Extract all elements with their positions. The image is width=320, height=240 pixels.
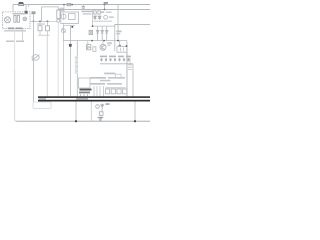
wire cap bottoms y35.2	[38, 34, 50, 36]
small rect row above bus	[106, 89, 110, 94]
fuse F2 on L rail	[67, 3, 71, 5]
power module box U1	[77, 41, 127, 97]
IC2 label text	[80, 89, 92, 91]
relay indicator circle	[57, 19, 60, 22]
terminal block	[33, 102, 51, 108]
capacitor C4	[98, 11, 101, 14]
varistor bottom circle	[96, 105, 100, 109]
label rows right of IC2	[90, 77, 106, 79]
fuse F1	[19, 3, 24, 6]
node dot y39.7 x104	[103, 40, 105, 42]
wire N rail	[58, 9, 150, 11]
label right of caps	[106, 12, 112, 13]
node dot y39.7 x118	[117, 40, 119, 42]
caps label text	[37, 23, 45, 24]
switch symbol under relay	[62, 25, 64, 40]
wire earth bottom rail	[16, 120, 150, 122]
capacitor C2	[47, 21, 49, 25]
inlet plug circle with X	[5, 17, 11, 23]
IC2 pin stubs	[81, 94, 88, 96]
capacitor C1	[39, 21, 41, 25]
wire x118 from L down	[117, 5, 119, 41]
inlet labels	[13, 13, 27, 14]
diode D2	[98, 16, 101, 20]
small rect R5	[93, 47, 96, 52]
wire dc bus y39.7	[63, 40, 127, 42]
small parts row y58.5	[100, 58, 129, 61]
node dot x76 bottom	[75, 120, 77, 122]
wire x64 drop to relay box	[63, 5, 65, 12]
wire N drop to cap line	[41, 7, 43, 22]
wire x63 long down	[62, 41, 64, 97]
wire right edge down	[126, 52, 128, 96]
wire L drop at x26	[25, 5, 27, 12]
inlet filter choke L1	[14, 15, 16, 22]
label row y72.5	[104, 73, 115, 75]
diode D3	[96, 27, 99, 41]
chassis ground symbol	[98, 118, 104, 121]
node dot N x104.5	[104, 9, 106, 11]
component on N rail	[60, 8, 63, 11]
wire N upper jog	[42, 7, 59, 10]
ground bus bar 2	[38, 100, 150, 102]
node dot cap2	[47, 21, 49, 23]
thermistor circle	[104, 15, 108, 19]
wire under relay box y25.4	[63, 23, 75, 25]
label row right	[90, 83, 105, 85]
inlet part number text	[8, 28, 15, 30]
node dot cap1	[39, 21, 41, 23]
label C1 right	[116, 31, 121, 33]
wire cluster down	[101, 109, 103, 112]
node dot L at x64	[63, 4, 65, 6]
node N rail label	[32, 11, 36, 14]
fuse F1 label	[19, 2, 23, 4]
wire PE down left side	[14, 29, 16, 70]
wire x119.7 stub	[119, 41, 121, 47]
wire x76 down	[75, 102, 77, 122]
current transformer loop on neutral	[32, 55, 39, 61]
inlet filter cap CX	[17, 15, 19, 22]
node dot L x72	[71, 4, 73, 6]
wire stub above U2	[87, 41, 89, 45]
wire out y24.4	[115, 23, 151, 25]
wire y63.8 inside box	[100, 63, 133, 65]
transformer T1 ticks	[128, 65, 132, 70]
capacitor C3	[94, 11, 97, 14]
node blob x70 y45.3	[69, 44, 72, 47]
relay coil circle	[61, 14, 66, 19]
controller IC2	[79, 78, 91, 88]
wire y21 right block	[92, 20, 112, 22]
text above bar2 mid	[76, 98, 88, 100]
wire to ground	[100, 115, 102, 117]
wire x92.5 N drop to bridge	[92, 10, 94, 27]
wire x115 drop	[114, 24, 116, 51]
wire x133 down	[132, 64, 134, 97]
wire L drop left into inlet	[12, 5, 14, 12]
node dot bridge left	[92, 25, 94, 27]
node dot L x104.5	[104, 4, 106, 6]
text between bars left	[39, 98, 47, 99]
wire x104.5 L to N	[104, 5, 106, 10]
node dot x33.5 cap line	[33, 21, 35, 23]
diode bottom cluster	[101, 104, 104, 110]
label 223	[101, 11, 104, 13]
label text under CX2	[81, 11, 92, 13]
bridge box with X	[89, 30, 93, 34]
wire stub x22.6	[22, 29, 24, 41]
diode D4	[101, 27, 104, 41]
wire x91.3 down	[90, 102, 92, 122]
IC pin text column	[75, 56, 78, 74]
node dot y39.7 x92	[91, 40, 93, 42]
diode D1	[94, 16, 97, 20]
cap bottom	[99, 112, 103, 116]
wire cap line y21.4	[30, 20, 48, 22]
wire stub x28.7	[28, 5, 30, 7]
snubber box	[117, 47, 127, 53]
node dot x73.8	[71, 26, 73, 28]
capacitor CX2 across L N	[82, 6, 85, 8]
wire x58.2 long drop	[57, 22, 59, 96]
transistor Q1	[102, 41, 104, 45]
breaker cross symbol	[61, 29, 65, 33]
resistor stubs to bus	[94, 86, 104, 96]
label above L node	[104, 2, 108, 4]
optocoupler U2	[87, 45, 91, 50]
node dot x119.7	[119, 45, 121, 47]
relay RL1 box	[61, 12, 79, 23]
relay contact block	[69, 14, 76, 20]
net label text row	[6, 41, 14, 43]
wire x135 down	[134, 102, 136, 122]
wire x47.2 down to bus	[46, 35, 48, 96]
relay coil K1	[57, 10, 60, 18]
wire x70 down from relay	[69, 25, 71, 96]
wire neutral vertical x33.5	[33, 14, 35, 102]
wire L top rail	[13, 4, 150, 6]
component text row y56	[100, 56, 107, 58]
ground bus bar 1	[38, 96, 150, 98]
inlet neon lamp	[23, 17, 27, 21]
mains inlet module X1 box	[3, 12, 30, 29]
label Q1	[107, 42, 112, 44]
label X2	[106, 103, 110, 105]
varistor RV1 label blob	[25, 11, 28, 14]
diode D5	[105, 27, 108, 41]
node dot x135 bottom	[134, 120, 136, 122]
node dot box corner	[126, 45, 128, 47]
wire bridge top y26.1	[93, 25, 116, 27]
